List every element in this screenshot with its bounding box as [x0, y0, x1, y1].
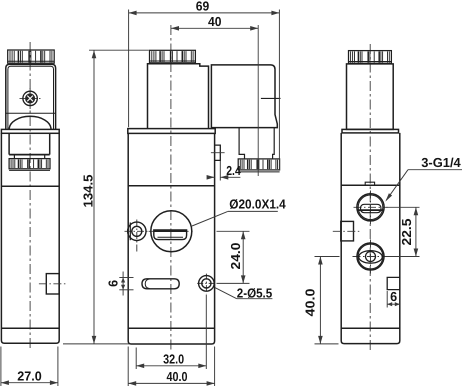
lower port inner circle — [358, 244, 383, 269]
connector lower block — [239, 128, 274, 159]
label 3-G1/4 leader — [386, 170, 408, 201]
right view valve body outline — [341, 133, 400, 344]
left view knurled manual nut — [9, 159, 50, 169]
protrusion centerline — [211, 152, 225, 154]
big port screw slot — [154, 230, 187, 240]
label Ø20.0X1.4 underline — [228, 210, 278, 212]
dimension 69 line — [129, 12, 280, 14]
right view slot seen edge-on — [365, 182, 374, 185]
label Ø20.0X1.4 leader — [192, 211, 228, 226]
svg-text:32.0: 32.0 — [163, 352, 184, 367]
dimension 22.5 line — [415, 207, 417, 256]
svg-text:40.0: 40.0 — [167, 369, 188, 384]
dimension 134.5 line — [93, 50, 95, 344]
dimension 134.5 top extension — [89, 49, 149, 51]
right view 6mm step box — [387, 277, 400, 289]
dimension 24.0 extensions — [217, 230, 250, 232]
top port outer circle — [357, 194, 384, 221]
middle view right protrusion — [215, 145, 221, 160]
bottom right hole outer — [199, 276, 215, 292]
dimension 40.0 line — [128, 382, 214, 384]
svg-text:3-G1/4: 3-G1/4 — [421, 155, 461, 170]
middle view connector housing — [211, 65, 277, 128]
right view centerline — [369, 44, 371, 352]
svg-text:24.0: 24.0 — [228, 243, 243, 270]
left view coil lower section — [8, 133, 10, 154]
svg-text:69: 69 — [196, 0, 210, 14]
dimension 22.5 extensions — [387, 206, 420, 208]
right view mounting flange — [342, 129, 399, 133]
bottom slot inner left arc — [145, 279, 150, 289]
right view coil — [347, 64, 394, 129]
left view screw phillips slot — [26, 94, 35, 103]
svg-text:6: 6 — [390, 289, 397, 304]
left mounting hole crosshair — [125, 230, 150, 232]
dimension 6 box line — [387, 303, 400, 305]
left mounting hole inner — [132, 226, 142, 236]
dimension 40.0 extensions — [127, 347, 129, 386]
dimension 40 line — [171, 27, 258, 29]
middle view body top joint line — [128, 185, 214, 187]
left view nut bottom flange line — [9, 169, 50, 171]
left cap inner bottom line — [8, 60, 55, 62]
lower port center hole — [366, 252, 376, 262]
dimension 40.0 right extensions — [315, 256, 340, 258]
middle view valve body outline — [128, 133, 214, 344]
dimension 27.0 line — [1, 382, 58, 384]
svg-text:2.4: 2.4 — [226, 163, 241, 178]
left view base plate line — [1, 327, 59, 329]
big port circle Ø20 — [151, 211, 192, 252]
dimension 134.5 bottom extension — [63, 343, 129, 345]
right view knurled cable-gland cap — [349, 51, 392, 64]
dimension 27.0 extensions — [0, 347, 2, 386]
left view side tab centerline — [39, 283, 68, 285]
left view screw crosshair — [20, 97, 41, 99]
dimension 6 box extension — [386, 291, 388, 308]
top port screw slot — [361, 204, 382, 212]
top port crosshair — [354, 206, 388, 208]
left view valve body outline — [1, 133, 59, 343]
svg-text:22.5: 22.5 — [399, 219, 414, 246]
middle view knurled cable-gland cap — [150, 50, 196, 63]
right cap inner bottom line — [349, 61, 392, 63]
left view dome arc — [9, 116, 51, 129]
lower port crosshair — [353, 256, 389, 258]
left view mounting flange — [1, 129, 59, 133]
label 2-Ø5.5 leader — [215, 288, 237, 299]
big port circle crosshair horizontal — [149, 230, 195, 232]
top port slot chord — [357, 209, 384, 211]
right view left tab centerline — [333, 230, 362, 232]
bottom right hole crosshair — [197, 282, 216, 284]
connector housing parting tick — [261, 97, 281, 99]
dimension 32.0 extensions — [135, 348, 137, 370]
bottom slot (oval) — [142, 279, 179, 289]
top port inner circle — [358, 195, 383, 220]
dimension 2.4 line and arrows — [208, 176, 215, 178]
left mounting hole outer — [128, 222, 146, 240]
middle view base plate line — [128, 327, 214, 329]
connector plug knurled ring — [238, 159, 279, 170]
left view DIN connector box inner wall — [8, 66, 54, 129]
right view base plate line — [341, 327, 400, 329]
svg-text:Ø20.0X1.4: Ø20.0X1.4 — [229, 196, 286, 211]
left mounting hole chord — [129, 223, 131, 241]
middle view centerline — [170, 25, 172, 352]
left view screw head outer — [23, 91, 37, 105]
left view side tab — [46, 274, 59, 294]
label 2-Ø5.5 underline — [237, 298, 273, 300]
dimension 6 slot extensions — [119, 277, 133, 279]
dimension 24.0 line — [242, 231, 244, 283]
dimension 2.4 extension — [219, 161, 221, 181]
left view body top joint line — [1, 185, 59, 187]
svg-text:6: 6 — [105, 280, 120, 287]
middle view mounting flange — [128, 129, 215, 134]
svg-text:27.0: 27.0 — [17, 368, 42, 383]
middle cap inner bottom line — [150, 60, 196, 62]
svg-text:40.0: 40.0 — [302, 289, 317, 317]
left view nut stems — [13, 156, 15, 159]
left view DIN connector box outer — [6, 64, 56, 129]
left view knurled cable-gland cap — [8, 50, 55, 63]
label 3-G1/4 underline — [408, 169, 462, 171]
right view left tab — [341, 221, 354, 241]
right view body top joint line — [341, 184, 400, 186]
middle view coil — [148, 64, 209, 129]
connector plug ring bottom line — [238, 171, 279, 173]
label 3-G1/4 leader arrowhead — [385, 193, 392, 201]
dimension 32.0 line — [136, 365, 206, 367]
big port slot inner line — [158, 236, 184, 238]
left view centerline — [29, 42, 31, 350]
svg-text:40: 40 — [208, 14, 222, 29]
connector vertical centerline / 40-dim extension — [257, 25, 259, 176]
svg-text:134.5: 134.5 — [80, 175, 95, 208]
bottom right hole inner — [202, 279, 211, 288]
dimension 69 extension lines — [128, 10, 130, 128]
dimension 40.0 right line — [319, 257, 321, 344]
dimension 6 slot line — [122, 272, 124, 296]
lower port oval cavity — [359, 251, 383, 264]
left view connector box bottom line — [6, 112, 56, 114]
lower port outer circle — [357, 243, 384, 270]
